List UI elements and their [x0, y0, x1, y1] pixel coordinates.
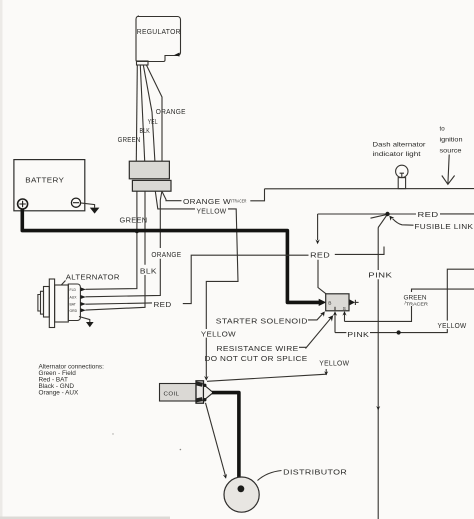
dash indicator lamp — [396, 165, 408, 188]
regulator plug tab — [137, 61, 149, 65]
svg-text:GREEN: GREEN — [404, 295, 427, 301]
resistance wire leader — [299, 315, 333, 348]
bulkhead connector lower — [132, 180, 171, 191]
svg-text:indicator light: indicator light — [373, 151, 421, 158]
label red (junction) — [309, 249, 332, 260]
arrowhead red feed — [315, 239, 319, 244]
thin coil to distributor wire — [206, 403, 226, 476]
svg-text:S: S — [343, 306, 346, 312]
svg-text:to: to — [440, 125, 446, 132]
svg-text:YEL: YEL — [148, 119, 158, 126]
bulkhead connector upper — [129, 161, 169, 179]
solenoid starter post — [349, 299, 358, 305]
ignition source arrow — [442, 155, 455, 185]
junction dot pink/yellow — [397, 330, 401, 334]
scan edge artifacts — [0, 0, 181, 519]
resistance wire diagonal to coil — [207, 369, 326, 381]
thick coil HT lead to distributor — [212, 393, 239, 488]
svg-text:BATTERY: BATTERY — [25, 178, 64, 185]
svg-text:REGULATOR: REGULATOR — [137, 29, 181, 36]
svg-text:BLK: BLK — [140, 128, 151, 135]
svg-text:DISTRIBUTOR: DISTRIBUTOR — [283, 469, 347, 476]
svg-text:GREEN: GREEN — [120, 218, 148, 225]
wire red to solenoid B post — [318, 260, 326, 294]
label yellow 2 (at coil) — [200, 329, 237, 338]
svg-text:GRD: GRD — [70, 309, 78, 313]
svg-text:ignition: ignition — [440, 136, 464, 143]
svg-text:RED: RED — [418, 212, 439, 219]
wire orange vertical to alternator aux — [86, 191, 162, 297]
wire green vertical to alternator field — [86, 191, 137, 289]
junction dot green x battery feed — [135, 230, 139, 234]
svg-text:FUSIBLE LINK: FUSIBLE LINK — [414, 224, 473, 231]
svg-text:COIL: COIL — [164, 392, 180, 398]
solenoid I stub with arrow — [333, 311, 337, 332]
svg-text:/TRACER: /TRACER — [405, 301, 429, 308]
svg-text:YELLOW: YELLOW — [438, 323, 467, 330]
battery — [14, 160, 85, 211]
svg-text:Dash alternator: Dash alternator — [373, 142, 426, 149]
fusible link symbol — [371, 212, 414, 228]
wire regulator I (orange) drop — [146, 65, 162, 161]
alternator ground wire — [79, 317, 90, 323]
battery negative terminal — [71, 198, 80, 207]
battery positive terminal — [18, 199, 28, 209]
distributor — [224, 477, 259, 512]
svg-text:B: B — [328, 300, 331, 306]
label green w/tracer — [402, 292, 432, 308]
wire alternator BAT red — [86, 255, 310, 304]
label I terminal tick — [334, 307, 336, 310]
thick battery feed wire to solenoid B — [22, 209, 319, 302]
wire green w/tracer from S — [345, 289, 474, 321]
top bus wire to ignition — [265, 188, 474, 190]
svg-text:DO NOT CUT OR SPLICE: DO NOT CUT OR SPLICE — [205, 356, 308, 363]
yellow wire arrowhead at coil — [204, 376, 208, 381]
svg-text:PINK: PINK — [347, 332, 369, 339]
arrowhead at solenoid B — [319, 299, 327, 306]
ignition coil — [160, 381, 214, 403]
wire regulator S (yel) drop — [143, 65, 155, 161]
svg-text:YELLOW: YELLOW — [201, 331, 236, 338]
svg-text:RESISTANCE WIRE: RESISTANCE WIRE — [217, 346, 299, 353]
svg-text:RED: RED — [154, 302, 172, 309]
svg-text:ORANGE: ORANGE — [156, 109, 186, 116]
starter solenoid SOL — [326, 294, 349, 311]
alternator ground symbol — [86, 322, 94, 327]
alternator terminal pins — [70, 287, 86, 312]
svg-text:STARTER SOLENOID: STARTER SOLENOID — [216, 319, 308, 326]
wire blk vertical to alternator gnd — [86, 191, 146, 310]
svg-text:source: source — [440, 147, 463, 154]
alternator ALT — [38, 279, 81, 328]
wire red dash right of junction — [335, 247, 384, 255]
pink wire arrow tick — [376, 406, 380, 410]
solenoid S stub with arrow — [342, 311, 346, 321]
distributor label leader — [258, 471, 282, 481]
battery ground symbol — [90, 208, 100, 214]
svg-text:BAT: BAT — [70, 303, 76, 307]
wire pink vertical — [377, 228, 379, 519]
svg-text:YELLOW: YELLOW — [319, 360, 349, 367]
svg-text:GREEN: GREEN — [118, 137, 141, 144]
regulator VR1 — [136, 16, 181, 62]
alternator connections note — [39, 363, 105, 396]
starter solenoid leader — [308, 311, 325, 320]
wire regulator F (green) drop — [136, 65, 137, 161]
wire regulator ground (blk) drop — [140, 65, 144, 161]
resistance wire arrow tick — [324, 371, 328, 375]
svg-text:Orange - AUX: Orange - AUX — [39, 390, 80, 397]
wire red main (fusible link feed) — [318, 214, 474, 240]
svg-text:PINK: PINK — [368, 273, 392, 280]
battery ground wire — [81, 203, 95, 208]
svg-text:ALTERNATOR: ALTERNATOR — [66, 275, 120, 282]
wire orange w/tracer branch — [162, 189, 265, 201]
svg-text:BLK: BLK — [140, 269, 157, 276]
svg-text:RED: RED — [310, 253, 330, 260]
svg-text:YELLOW: YELLOW — [197, 208, 227, 215]
svg-text:FLD: FLD — [70, 288, 77, 292]
coil wire arrowhead — [223, 474, 227, 479]
alternator label leader — [62, 281, 66, 285]
label yellow 3 — [437, 321, 469, 330]
svg-text:AUX: AUX — [70, 296, 78, 300]
wire pink/yellow from I terminal — [335, 269, 474, 332]
wire yellow branch — [155, 191, 238, 377]
svg-text:ORANGE: ORANGE — [151, 252, 181, 259]
